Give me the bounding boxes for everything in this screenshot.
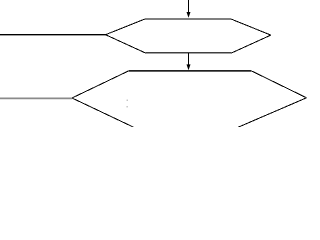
arrow A1: vertical arrow entering top hexagon from above [187,0,191,18]
wire: left connector into bottom hexagon [0,97,72,99]
arrow A2: vertical arrow from top hexagon to bottom hexagon [187,53,191,71]
hexagon H2 (bottom shape, clipped at image bottom) [72,71,307,128]
wire: left connector into top hexagon [0,34,106,36]
text: faint colon inside bottom hexagon [127,100,128,108]
hexagon H1 (top decision/preparation shape) [106,19,271,53]
